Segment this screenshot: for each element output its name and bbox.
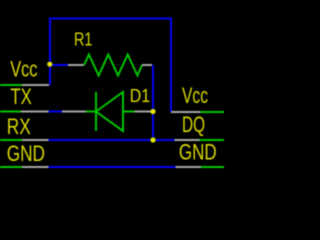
wire resistor branch bbox=[50, 64, 68, 66]
svg-text:TX: TX bbox=[10, 84, 32, 109]
svg-text:GND: GND bbox=[7, 141, 45, 166]
node Vcc right port line bbox=[171, 111, 224, 113]
node RX / DQ line bbox=[0, 139, 224, 141]
node GND line bbox=[0, 166, 224, 168]
junction dot at RX/DQ bbox=[150, 137, 155, 142]
svg-text:DQ: DQ bbox=[182, 112, 205, 137]
node Vcc left port line bbox=[0, 84, 49, 86]
svg-text:GND: GND bbox=[179, 139, 217, 164]
svg-text:D1: D1 bbox=[130, 85, 150, 106]
node TX port line bbox=[0, 111, 49, 113]
resistor R1 bbox=[68, 55, 152, 76]
junction dot at Vcc/R1 bbox=[47, 62, 52, 67]
junction dot at diode/DQ bbox=[150, 109, 155, 114]
svg-text:Vcc: Vcc bbox=[10, 56, 37, 81]
svg-text:Vcc: Vcc bbox=[182, 83, 208, 108]
wire top Vcc bus bbox=[50, 19, 171, 113]
diode D1 bbox=[62, 92, 152, 131]
wire TX to diode bbox=[49, 111, 63, 113]
svg-text:R1: R1 bbox=[74, 29, 92, 50]
wire diode to DQ vertical bbox=[152, 65, 154, 140]
svg-text:RX: RX bbox=[7, 114, 31, 139]
